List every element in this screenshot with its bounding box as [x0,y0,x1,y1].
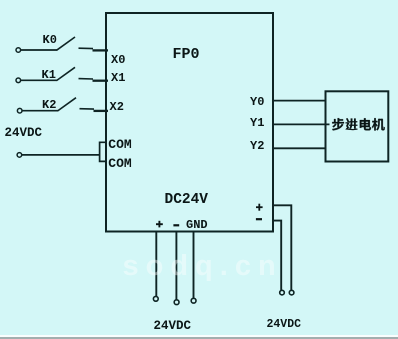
plus terminal mark (right side of FP0) [256,204,263,211]
pin label X0 [111,53,125,67]
label 步进电机 (stepper motor) [332,118,385,130]
pin label X2 [110,100,124,114]
wire minus bottom [175,232,177,300]
wire 24VDC to COM [22,154,100,156]
label K2 [42,98,56,112]
wire switch K0 to X0 [79,48,109,50]
switch K1 [16,67,75,82]
label K0 [43,33,57,47]
terminal circle bottom minus [174,300,179,305]
switch K0 [16,37,75,52]
label DC24V [165,192,209,208]
terminal circle 24VDC right inner [280,290,285,295]
minus terminal mark (right side of FP0) [256,218,262,220]
wire GND bottom [193,232,195,298]
terminal circle 24VDC right outer [289,290,294,295]
COM terminal bracket [100,142,107,161]
label 24VDC left [5,126,43,140]
minus mark bottom terminals [173,224,179,226]
wire switch K1 to X1 [79,79,109,81]
stepper motor box [326,91,389,161]
terminal circle bottom GND [191,298,196,303]
wire switch K2 to X2 [80,109,109,111]
wire Y1 [274,123,330,125]
plus mark bottom terminals [156,221,163,228]
label K1 [42,68,56,82]
label 24VDC right [267,318,302,331]
pin label Y1 [250,116,264,130]
label FP0 [173,46,200,63]
24VDC source terminal (left) [17,153,22,158]
wire plus to 24VDC (outer) [274,205,291,290]
wire minus to 24VDC (inner) [274,221,281,291]
pin label Y2 [250,139,264,153]
pin label X1 [111,71,125,85]
wire Y2 [274,147,326,149]
pin label COM lower [108,156,131,171]
pin label Y0 [250,95,264,109]
switch K2 [17,98,76,113]
pin label COM upper [108,137,131,152]
PLC main unit FP0 box [106,13,273,232]
wire Y0 [274,100,326,102]
label 24VDC bottom [154,319,192,333]
pin label GND [186,218,208,232]
wire plus bottom [155,232,157,296]
terminal circle bottom plus [153,296,158,301]
